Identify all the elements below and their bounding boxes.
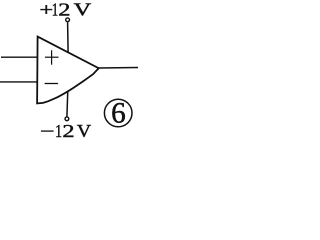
- svg-text:V: V: [77, 121, 91, 139]
- svg-text:V: V: [74, 0, 92, 20]
- svg-text:2: 2: [58, 0, 70, 20]
- svg-text:−: −: [40, 121, 55, 139]
- svg-text:1: 1: [55, 121, 62, 139]
- svg-text:1: 1: [52, 0, 58, 20]
- svg-text:2: 2: [62, 121, 74, 139]
- svg-text:6: 6: [111, 98, 126, 130]
